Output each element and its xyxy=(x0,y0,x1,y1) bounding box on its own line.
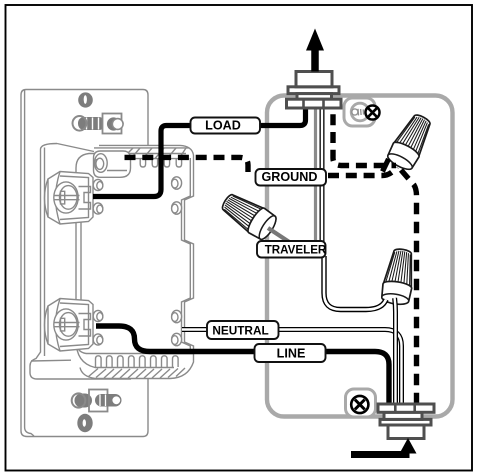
ground wire end stub at nut mouth xyxy=(383,159,389,172)
switch body outline xyxy=(76,154,186,169)
svg-text:TRAVELER: TRAVELER xyxy=(265,243,327,256)
yoke screw boss xyxy=(94,151,131,177)
plate bottom screw hole xyxy=(77,414,92,432)
ground dashed: label to wire nut xyxy=(328,167,397,176)
wire holes right top xyxy=(172,177,182,214)
box tab top-right xyxy=(344,98,380,126)
wire holes right bottom xyxy=(172,310,182,345)
terminal screw top (3D boss) xyxy=(45,172,94,225)
label GROUND xyxy=(256,169,327,186)
traveler down from nut3 xyxy=(392,298,398,406)
screw head xyxy=(54,182,78,213)
yoke outline xyxy=(30,144,131,380)
switch body right edge xyxy=(185,155,194,352)
wire nut top right (ground) xyxy=(385,110,436,172)
fin hatching xyxy=(88,368,185,378)
wall plate thickness edge xyxy=(25,90,34,436)
switch body left edge xyxy=(76,168,86,354)
ground dashed: switch to GROUND label xyxy=(125,157,249,172)
TRAVELER wire lower double xyxy=(324,256,386,310)
terminal screw bottom (3D boss) xyxy=(45,299,94,352)
electrical box xyxy=(267,96,453,417)
terminal plate xyxy=(79,187,91,210)
label TRAVELER xyxy=(257,241,327,258)
svg-text:GROUND: GROUND xyxy=(262,170,318,184)
top cable clamp xyxy=(287,72,342,109)
label LINE xyxy=(255,344,326,362)
LOAD wire xyxy=(93,103,306,197)
gray traveler wire (switch to label) xyxy=(314,105,317,242)
TRAVELER wire upper double xyxy=(320,105,325,243)
ground dashed: nut to bottom right vertical xyxy=(401,170,417,404)
yoke left edge xyxy=(44,148,46,357)
svg-text:LOAD: LOAD xyxy=(205,118,241,132)
wire nut right (traveler to line cable) xyxy=(380,247,417,306)
svg-text:LINE: LINE xyxy=(277,347,306,361)
screw head xyxy=(54,309,78,340)
fins xyxy=(96,356,179,367)
wire holes left bottom xyxy=(93,310,103,345)
NEUTRAL wire double line xyxy=(182,330,402,407)
wire nut left (traveler) xyxy=(217,188,279,242)
plate bottom screw xyxy=(72,390,122,412)
flange slots xyxy=(123,158,190,160)
plate top screw hole xyxy=(78,92,93,107)
terminal plate xyxy=(79,314,91,337)
wire holes left top xyxy=(93,179,103,214)
top flange xyxy=(99,145,194,155)
LINE wire xyxy=(96,326,389,406)
ground dashed: top clamp down and right to nut xyxy=(333,103,396,166)
gray stub wire nut1 to TRAVELER label xyxy=(268,228,290,243)
bottom cable clamp xyxy=(378,404,434,439)
switch body white silhouette xyxy=(76,146,194,379)
screw cross symbol xyxy=(366,106,380,120)
wall plate xyxy=(21,90,148,437)
top arrow xyxy=(311,46,319,72)
flange hooks xyxy=(140,159,145,168)
plate top screw xyxy=(73,114,124,134)
switch body bottom / fin band xyxy=(86,353,194,355)
bottom lead arrow xyxy=(351,450,406,455)
label LOAD xyxy=(191,118,261,134)
box tab bottom xyxy=(346,389,376,417)
small gray screw xyxy=(352,109,366,116)
svg-text:NEUTRAL: NEUTRAL xyxy=(212,324,268,338)
label NEUTRAL xyxy=(207,321,279,339)
